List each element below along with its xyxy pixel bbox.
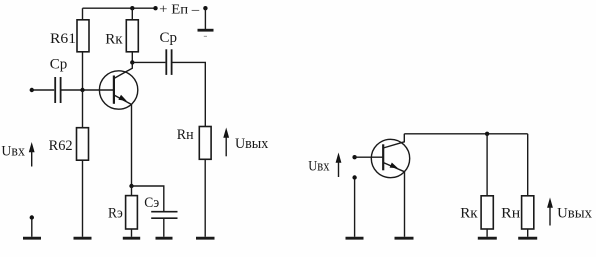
node: input terminal (bottom) — [30, 215, 34, 219]
wire: +Ep supply rail — [83, 7, 156, 9]
node: right input terminal (top) — [352, 155, 356, 159]
node: collector junction — [130, 60, 134, 64]
wire: base node to R62 — [82, 90, 84, 128]
wire: emitter node to Ce — [132, 186, 164, 211]
resistor Rk (left) — [126, 20, 138, 52]
wire: right emitter to ground — [404, 172, 406, 237]
node: input terminal (top) — [30, 88, 34, 92]
arrow: Uvyh (right) — [547, 198, 553, 226]
capacitor Ce — [151, 212, 177, 219]
resistor R62 — [77, 128, 89, 161]
transistor VT2 (right) — [371, 134, 409, 178]
wire: Rk (right) to ground — [486, 229, 488, 237]
wire: Rn to ground — [204, 159, 206, 237]
arrow: Uvh (right) — [336, 153, 342, 178]
wire: input bottom to ground — [31, 219, 33, 237]
wire: Rn (right) to ground — [527, 229, 529, 237]
svg-text:Ср: Ср — [160, 30, 178, 46]
resistor Rn (left) — [199, 127, 211, 160]
wire: input to Cp — [32, 89, 54, 91]
arrow: Uvyh (left) — [223, 128, 229, 157]
transistor VT1 (left) — [99, 62, 137, 109]
wire: Cp to Rn corner — [173, 62, 206, 126]
wire: emitter node to Re — [131, 186, 133, 196]
node: +Ep terminal dot — [153, 6, 157, 10]
resistor R61 — [77, 20, 89, 52]
wire: rail to Rk — [131, 8, 133, 20]
wire: right input to base — [355, 156, 384, 158]
svg-text:Rк: Rк — [460, 206, 478, 222]
resistor Rk (right) — [481, 196, 493, 229]
ground: under input (left) — [23, 237, 41, 240]
wire: Ce to ground — [163, 219, 165, 237]
svg-text:R61: R61 — [50, 31, 76, 47]
node: base divider junction — [80, 88, 84, 92]
svg-text:Сэ: Сэ — [144, 195, 159, 211]
node: collector rail junction — [485, 132, 489, 136]
ground: under right emitter — [395, 237, 414, 240]
capacitor Cp (output) — [166, 49, 171, 75]
wire: junction to Rk (right) — [486, 134, 488, 196]
ground: under right input — [346, 237, 364, 240]
svg-text:+ Еп –: + Еп – — [159, 1, 199, 16]
svg-text:Uвых: Uвых — [557, 206, 593, 222]
wire: right collector rail — [404, 133, 527, 135]
svg-text:Rн: Rн — [177, 127, 194, 143]
wire: right input bottom to ground — [354, 179, 356, 237]
wire: R62 to ground — [82, 160, 84, 237]
wire: Cp to base — [62, 89, 114, 91]
ground: under Re — [123, 237, 140, 240]
ground: under Rk (right) — [478, 237, 497, 240]
svg-text:Rэ: Rэ — [108, 206, 123, 222]
ground: under Rn (right) — [518, 237, 537, 240]
wire: collector node to Cp — [132, 61, 165, 63]
node: emitter junction — [129, 184, 133, 188]
ground: -Ep terminal — [198, 29, 214, 32]
wire: emitter down — [131, 105, 133, 187]
svg-text:Rк: Rк — [105, 32, 123, 48]
svg-text:Ср: Ср — [50, 56, 68, 72]
resistor Rn (right) — [522, 196, 534, 229]
node: -Ep terminal dot — [203, 6, 207, 10]
wire: -Ep terminal down — [204, 8, 206, 29]
node: right input terminal (bottom) — [352, 175, 356, 179]
wire: Re to ground — [131, 229, 133, 237]
svg-text:Uвых: Uвых — [235, 136, 269, 152]
ground: under R62 — [74, 237, 92, 240]
wire: rail to R61 — [82, 8, 84, 20]
capacitor Cp (input) — [55, 77, 60, 103]
ground: under Ce — [156, 237, 173, 240]
node: rail / Rk junction — [130, 6, 134, 10]
svg-text:Rн: Rн — [501, 206, 520, 222]
wire: Rk to collector node — [131, 52, 133, 63]
svg-text:R62: R62 — [49, 138, 73, 154]
svg-text:Uвх: Uвх — [1, 144, 25, 160]
resistor Re — [126, 196, 138, 229]
wire: rail corner to Rn (right) — [527, 134, 529, 196]
arrow: Uvh (left) — [29, 142, 35, 167]
ground: faint lower tick of -Ep ground — [204, 35, 207, 37]
ground: under Rn (left) — [196, 237, 215, 240]
svg-text:Uвх: Uвх — [308, 159, 330, 175]
wire: R61 to base node — [82, 52, 84, 90]
